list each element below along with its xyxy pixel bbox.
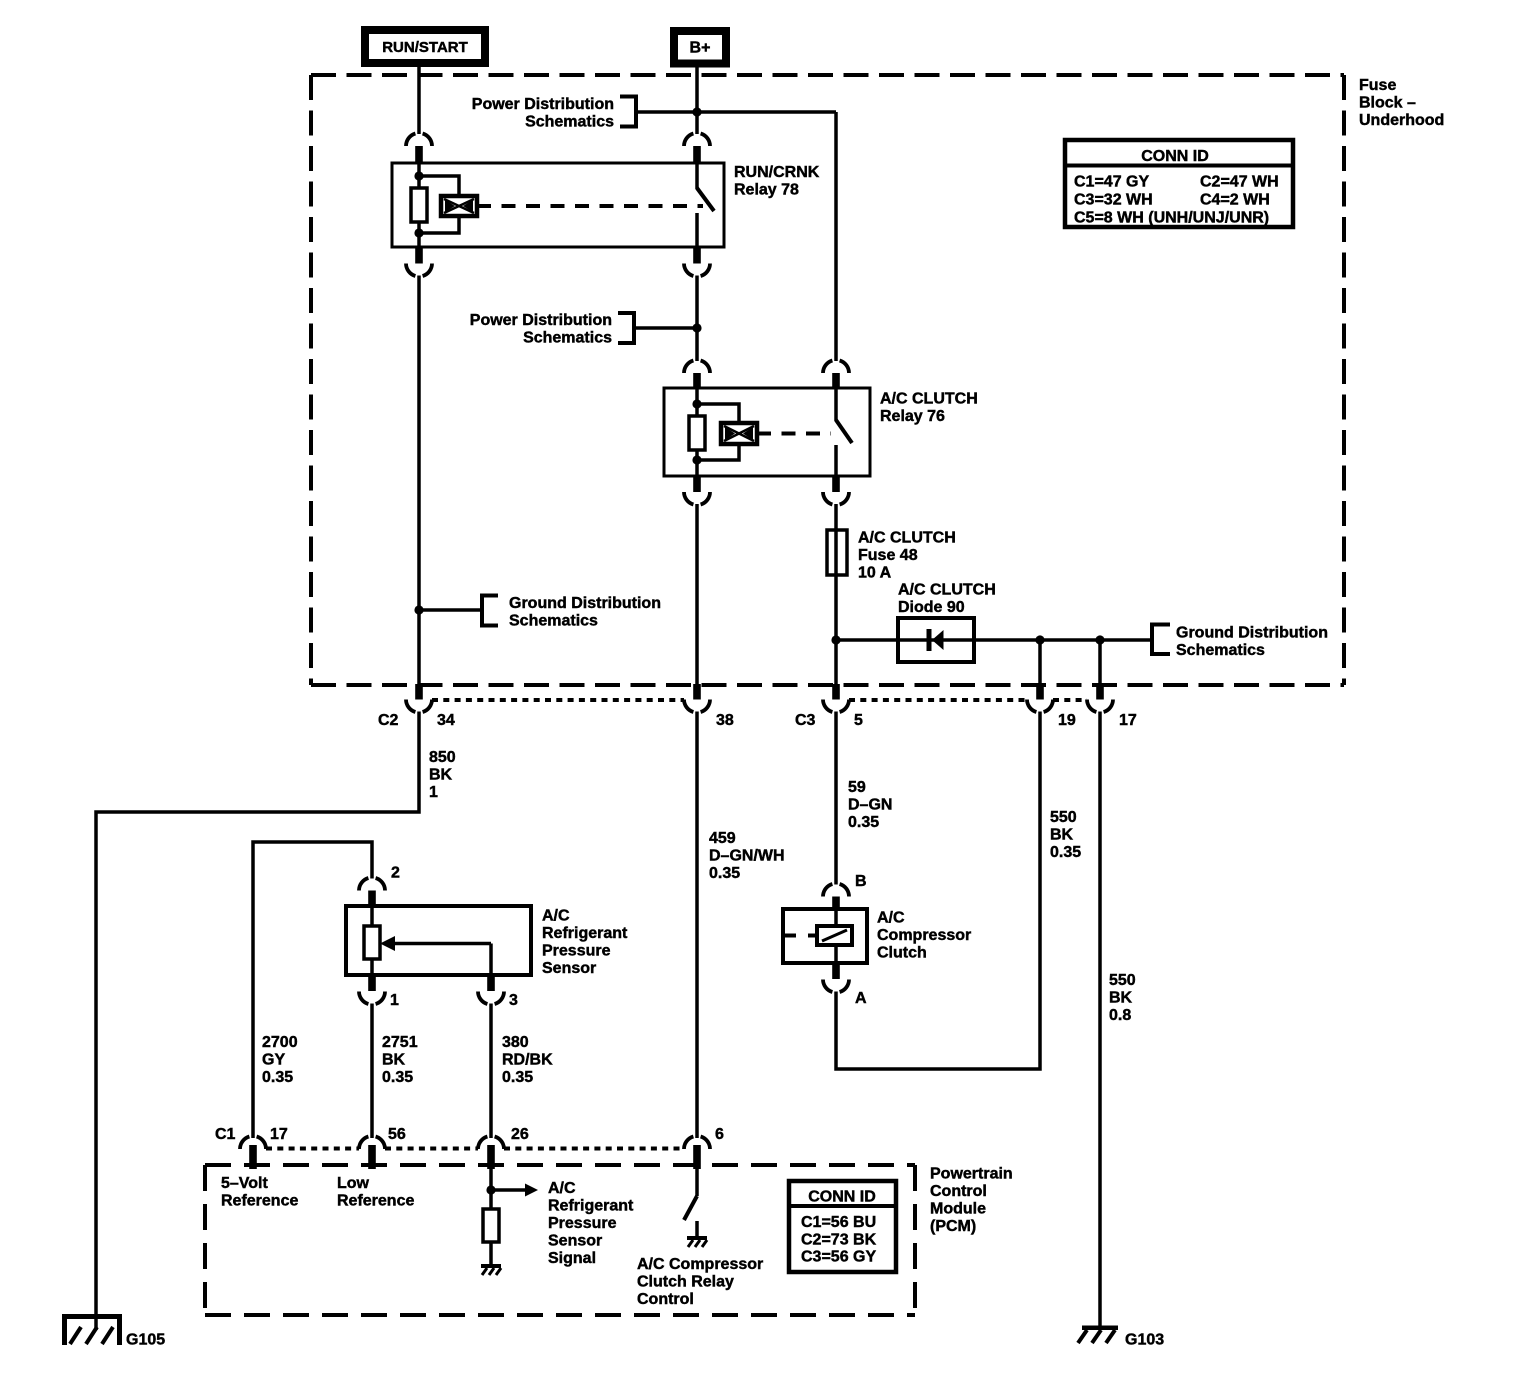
svg-text:Control: Control	[637, 1291, 694, 1308]
relay 76 coil winding symbol	[721, 423, 757, 444]
svg-text:Sensor: Sensor	[548, 1232, 602, 1249]
CONN ID table (fuse block)	[1065, 140, 1293, 227]
svg-text:1: 1	[390, 992, 399, 1009]
fuse block connector C2 pin 34	[415, 684, 423, 700]
A/C CLUTCH Relay 76 coil resistance	[689, 416, 705, 450]
PCM sensor signal input circuit	[491, 1169, 538, 1209]
svg-text:C3=32 WH: C3=32 WH	[1074, 192, 1153, 209]
PCM connector face line	[385, 1147, 478, 1151]
PCM dashed enclosure	[205, 1165, 915, 1315]
connector at A/C CLUTCH relay coil top	[684, 361, 710, 373]
node: fuse output / diode junction	[831, 635, 840, 644]
sensor U: A/C Refrigerant Pressure Sensor	[346, 906, 531, 975]
CONN ID table (PCM)	[789, 1181, 896, 1272]
connector at sensor pin 1	[368, 975, 376, 991]
svg-text:Sensor: Sensor	[542, 960, 596, 977]
connector at compressor clutch pin A	[832, 963, 840, 979]
svg-text:19: 19	[1058, 712, 1076, 729]
wire: ground distribution tap	[419, 608, 482, 612]
svg-text:56: 56	[388, 1126, 406, 1143]
fuse block connector C2 pin 38	[693, 684, 701, 700]
svg-text:Schematics: Schematics	[523, 330, 612, 347]
connector at RUN/CRNK relay switch bottom	[693, 247, 701, 264]
fuse F: A/C CLUTCH Fuse 48	[827, 530, 847, 575]
node: coil top junction	[414, 171, 423, 180]
svg-text:Pressure: Pressure	[548, 1215, 617, 1232]
svg-text:Powertrain: Powertrain	[930, 1165, 1013, 1182]
node: pin 17 junction	[1095, 635, 1104, 644]
svg-text:26: 26	[511, 1126, 529, 1143]
svg-text:0.35: 0.35	[709, 865, 740, 882]
wire: relay 76 coil branch return	[697, 444, 739, 460]
RUN/CRNK Relay 78 coil resistance	[411, 188, 427, 222]
svg-text:RUN/CRNK: RUN/CRNK	[734, 164, 820, 181]
PCM pull resistor	[483, 1209, 499, 1242]
svg-text:Pressure: Pressure	[542, 943, 611, 960]
svg-text:0.8: 0.8	[1109, 1007, 1131, 1024]
node: B+ / power distribution junction	[692, 107, 701, 116]
PCM clutch relay control driver switch	[684, 1169, 697, 1236]
svg-text:G105: G105	[126, 1332, 165, 1349]
sensor wiper arrow	[380, 936, 491, 975]
node: signal junction	[486, 1185, 495, 1194]
svg-text:Ground Distribution: Ground Distribution	[509, 595, 661, 612]
svg-text:G103: G103	[1125, 1332, 1164, 1349]
connector at RUN/CRNK relay pin (coil top)	[406, 134, 432, 146]
ground G105	[62, 1314, 122, 1345]
wire: coil branch	[419, 176, 459, 196]
connector at A/C relay coil bottom	[693, 476, 701, 492]
wire: B+ feed down to A/C CLUTCH relay switch	[834, 112, 838, 361]
fuse block connector C3 pin 19	[1036, 684, 1044, 700]
svg-text:0.35: 0.35	[502, 1069, 533, 1086]
svg-text:34: 34	[437, 712, 455, 729]
PCM connector C1 pin 6	[684, 1137, 710, 1149]
svg-text:5–Volt: 5–Volt	[221, 1175, 269, 1192]
wire: diode bus to pin 17	[1098, 640, 1102, 684]
svg-text:Underhood: Underhood	[1359, 112, 1444, 129]
wire: coil branch return	[419, 216, 459, 233]
svg-text:C3: C3	[795, 712, 816, 729]
svg-text:2751: 2751	[382, 1034, 418, 1051]
node: pin 19 junction	[1035, 635, 1044, 644]
svg-text:Refrigerant: Refrigerant	[548, 1197, 634, 1214]
svg-text:Clutch: Clutch	[877, 945, 927, 962]
svg-text:B: B	[855, 873, 867, 890]
svg-text:59: 59	[848, 779, 866, 796]
connector at sensor pin 2	[359, 878, 385, 890]
sensor potentiometer element	[364, 926, 380, 959]
svg-text:A: A	[855, 990, 867, 1007]
wire: A/C relay coil control lead down to fuse block pin 38	[695, 504, 699, 684]
svg-text:Schematics: Schematics	[1176, 642, 1265, 659]
PCM connector face line	[504, 1147, 684, 1151]
node: coil bottom junction	[414, 228, 423, 237]
svg-text:Refrigerant: Refrigerant	[542, 925, 628, 942]
svg-text:BK: BK	[429, 767, 453, 784]
connector at A/C relay switch bottom	[832, 476, 840, 492]
Power Distribution Schematics tap (top)	[472, 96, 636, 131]
ground G103	[1078, 1326, 1118, 1344]
connector at compressor clutch pin B	[823, 884, 849, 896]
svg-text:0.35: 0.35	[262, 1069, 293, 1086]
svg-text:Block –: Block –	[1359, 95, 1416, 112]
B+ power feed box	[674, 31, 726, 64]
svg-text:1: 1	[429, 784, 438, 801]
svg-text:Clutch Relay: Clutch Relay	[637, 1273, 734, 1290]
svg-text:3: 3	[509, 992, 518, 1009]
svg-text:C5=8 WH (UNH/UNJ/UNR): C5=8 WH (UNH/UNJ/UNR)	[1074, 210, 1269, 227]
diode D: A/C CLUTCH Diode 90	[898, 618, 974, 662]
relay U: A/C CLUTCH Relay 76	[664, 388, 870, 476]
svg-text:A/C Compressor: A/C Compressor	[637, 1256, 763, 1273]
svg-text:Fuse 48: Fuse 48	[858, 547, 918, 564]
wire: relay 76 coil branch	[697, 404, 739, 423]
dashed mechanical link to relay 78 switch	[477, 204, 703, 208]
svg-text:C1=56 BU: C1=56 BU	[801, 1214, 876, 1231]
svg-text:A/C: A/C	[542, 908, 570, 925]
dashed mechanical link to relay 76 switch	[757, 432, 831, 436]
svg-text:550: 550	[1109, 972, 1136, 989]
relay U: RUN/CRNK Relay 78	[392, 163, 724, 247]
ground (PCM internal, relay driver)	[687, 1236, 707, 1247]
svg-text:C1: C1	[215, 1126, 236, 1143]
svg-text:GY: GY	[262, 1052, 285, 1069]
svg-text:Relay 76: Relay 76	[880, 408, 945, 425]
wire 2751 BK: sensor pin 1 to PCM pin 56	[370, 1004, 374, 1139]
PCM connector C1 pin 26	[478, 1137, 504, 1149]
svg-text:CONN ID: CONN ID	[808, 1189, 876, 1206]
svg-text:850: 850	[429, 749, 456, 766]
svg-text:Low: Low	[337, 1175, 370, 1192]
PCM connector C1 pin 56	[359, 1137, 385, 1149]
wire: power distribution bus to B+ node and A/C relay switch feed	[636, 110, 836, 114]
wire: RUN/CRNK relay coil ground lead down to fuse block pin 34	[417, 276, 421, 685]
node: switched ignition junction	[692, 323, 701, 332]
svg-text:A/C: A/C	[877, 910, 905, 927]
relay coil winding symbol	[441, 196, 477, 216]
svg-text:0.35: 0.35	[382, 1069, 413, 1086]
wire: RUN/CRNK relay switched output down to A/C relay coil	[695, 276, 699, 362]
clutch L: A/C Compressor Clutch	[783, 909, 867, 963]
wire to PCM internal ground	[489, 1242, 493, 1264]
connector C3 face line	[849, 698, 1027, 702]
svg-text:C1=47 GY: C1=47 GY	[1074, 174, 1149, 191]
wire: tap to run/crnk relay output	[634, 326, 697, 330]
wire 550 BK 0.8: pin 17 to G103	[1098, 712, 1102, 1328]
svg-text:B+: B+	[690, 40, 711, 57]
svg-text:17: 17	[270, 1126, 288, 1143]
node: ground distribution junction	[414, 605, 423, 614]
svg-text:Control: Control	[930, 1183, 987, 1200]
svg-text:Reference: Reference	[221, 1192, 298, 1209]
Ground Distribution Schematics tap (left)	[482, 595, 661, 630]
svg-text:0.35: 0.35	[848, 814, 879, 831]
connector at A/C CLUTCH relay switch top	[823, 361, 849, 373]
svg-text:RD/BK: RD/BK	[502, 1052, 553, 1069]
svg-text:380: 380	[502, 1034, 529, 1051]
PCM connector C1 pin 17	[240, 1137, 266, 1149]
relay 76 switch	[836, 388, 852, 476]
svg-text:Reference: Reference	[337, 1192, 414, 1209]
connector C2 face line	[432, 698, 684, 702]
connector C3 face line segment	[1053, 698, 1087, 702]
connector at sensor pin 3	[487, 975, 495, 991]
svg-text:Fuse: Fuse	[1359, 77, 1396, 94]
wire: RUN/START down to RUN/CRNK relay coil connector	[417, 67, 421, 134]
svg-text:A/C: A/C	[548, 1180, 576, 1197]
svg-text:A/C CLUTCH: A/C CLUTCH	[880, 391, 978, 408]
wire: A/C relay switch output to fuse 48	[834, 504, 838, 530]
wire: diode bus to pin 19	[1038, 640, 1042, 684]
svg-text:Schematics: Schematics	[525, 113, 614, 130]
svg-text:D–GN: D–GN	[848, 797, 892, 814]
svg-text:Schematics: Schematics	[509, 613, 598, 630]
svg-text:10 A: 10 A	[858, 565, 892, 582]
svg-text:Power Distribution: Power Distribution	[472, 96, 614, 113]
fuse block connector C3 pin 5	[832, 684, 840, 700]
svg-text:Power Distribution: Power Distribution	[470, 312, 612, 329]
node: relay 76 coil bottom junction	[692, 455, 701, 464]
Power Distribution Schematics tap (middle)	[470, 312, 634, 347]
svg-text:(PCM): (PCM)	[930, 1218, 976, 1235]
connector at RUN/CRNK relay pin (switch top)	[684, 134, 710, 146]
svg-text:6: 6	[715, 1126, 724, 1143]
wire 59 D-GN: pin 5 to compressor clutch B	[834, 712, 838, 885]
svg-text:550: 550	[1050, 809, 1077, 826]
fuse block connector C3 pin 17	[1096, 684, 1104, 700]
svg-text:Ground Distribution: Ground Distribution	[1176, 625, 1328, 642]
wire: 5-volt reference feed from PCM to sensor pin 2	[253, 842, 372, 1138]
wire: clutch ground return to pin 19	[836, 712, 1040, 1070]
svg-text:C2=73 BK: C2=73 BK	[801, 1232, 877, 1249]
svg-text:BK: BK	[1050, 827, 1074, 844]
svg-text:C2: C2	[378, 712, 399, 729]
svg-text:BK: BK	[1109, 990, 1133, 1007]
RUN/START power feed box	[365, 30, 485, 63]
svg-text:2: 2	[391, 865, 400, 882]
svg-text:17: 17	[1119, 712, 1137, 729]
svg-text:Diode 90: Diode 90	[898, 599, 965, 616]
ground (PCM internal, sensor signal)	[481, 1264, 501, 1275]
wire 459 D-GN/WH: pin 38 to PCM pin 6	[695, 712, 699, 1139]
svg-text:BK: BK	[382, 1052, 406, 1069]
svg-text:CONN ID: CONN ID	[1141, 148, 1209, 165]
svg-text:Relay 78: Relay 78	[734, 182, 799, 199]
wire 380 RD/BK: sensor pin 3 to PCM pin 26	[489, 1004, 493, 1139]
svg-text:0.35: 0.35	[1050, 844, 1081, 861]
svg-text:5: 5	[854, 712, 863, 729]
svg-text:459: 459	[709, 830, 736, 847]
wire: fuse output down to fuse block pin 5	[834, 575, 838, 684]
svg-text:C4=2 WH: C4=2 WH	[1200, 192, 1270, 209]
PCM connector C1 face line	[266, 1147, 359, 1151]
node: relay 76 coil top junction	[692, 399, 701, 408]
wire: B+ down to RUN/CRNK relay switch connector	[695, 68, 699, 135]
wire 850 BK 1: pin 34 to G105	[96, 712, 419, 1315]
svg-text:A/C CLUTCH: A/C CLUTCH	[858, 530, 956, 547]
svg-text:38: 38	[716, 712, 734, 729]
svg-text:C3=56 GY: C3=56 GY	[801, 1249, 876, 1266]
Ground Distribution Schematics tap (right)	[1152, 625, 1328, 660]
wire: clutch feed / diode bus	[836, 638, 1152, 642]
svg-text:2700: 2700	[262, 1034, 298, 1051]
connector at RUN/CRNK relay coil bottom	[415, 247, 423, 264]
svg-text:RUN/START: RUN/START	[382, 39, 468, 56]
fuse block - underhood dashed enclosure	[311, 75, 1344, 685]
svg-text:Compressor: Compressor	[877, 927, 971, 944]
svg-text:A/C CLUTCH: A/C CLUTCH	[898, 582, 996, 599]
svg-text:Signal: Signal	[548, 1250, 596, 1267]
svg-text:Module: Module	[930, 1200, 986, 1217]
relay 78 switch	[697, 163, 714, 247]
svg-text:D–GN/WH: D–GN/WH	[709, 848, 785, 865]
svg-text:C2=47 WH: C2=47 WH	[1200, 174, 1279, 191]
